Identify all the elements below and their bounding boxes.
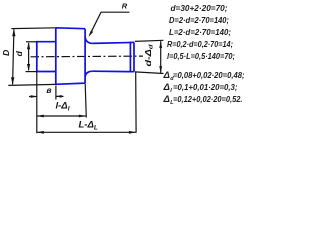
svg-text:L-ΔL: L-ΔL — [79, 120, 98, 132]
svg-text:Δ: Δ — [163, 82, 170, 93]
svg-text:Δ: Δ — [163, 94, 170, 105]
dimension d-dd (right end) extension lines — [135, 40, 164, 73]
shaft bottom edge — [93, 70, 134, 73]
dimension d arrows — [27, 42, 30, 49]
centerline (axis) — [31, 55, 144, 58]
left stub cylinder (diameter d) — [37, 28, 134, 85]
svg-text:=0,1+0,01·20=0,3;: =0,1+0,01·20=0,3; — [173, 83, 238, 92]
dimension D arrows — [12, 29, 15, 37]
d-dd arrows — [159, 41, 162, 48]
shaft end faces (double line) — [130, 42, 134, 71]
svg-text:l-Δl: l-Δl — [56, 101, 70, 113]
dimension l-dl right extension (flange right face down) — [85, 84, 86, 118]
svg-text:L=2·d=2·70=140;: L=2·d=2·70=140; — [169, 28, 231, 37]
lower fillet — [85, 71, 93, 77]
shared left extension line — [36, 72, 38, 133]
svg-text:d=30+2·20=70;: d=30+2·20=70; — [171, 4, 228, 13]
svg-text:Δ: Δ — [163, 70, 170, 81]
leader line for R — [90, 12, 130, 35]
svg-text:d: d — [14, 50, 24, 56]
svg-text:D: D — [1, 50, 11, 56]
svg-text:R: R — [122, 1, 128, 10]
dimension d extension lines — [26, 42, 37, 72]
l-dl dim line — [37, 115, 86, 117]
svg-text:в: в — [46, 85, 51, 95]
dimension D extension lines — [8, 28, 56, 86]
svg-text:d-Δd: d-Δd — [144, 44, 155, 67]
shaft top edge — [93, 42, 134, 43]
svg-text:=0,12+0,02·20=0,52.: =0,12+0,02·20=0,52. — [173, 95, 243, 104]
svg-text:R=0,2·d=0,2·70=14;: R=0,2·d=0,2·70=14; — [167, 40, 233, 49]
L-dL dim line — [37, 131, 136, 133]
flange (diameter D) — [56, 28, 85, 85]
leader arrowhead — [89, 31, 94, 37]
upper fillet R — [85, 37, 93, 44]
svg-text:l=0,5·L=0,5·140=70;: l=0,5·L=0,5·140=70; — [167, 52, 235, 61]
dimension L-dL right extension (shaft end down) — [135, 73, 137, 133]
svg-text:D=2·d=2·70=140;: D=2·d=2·70=140; — [169, 16, 229, 25]
dimension d dim line — [28, 43, 30, 70]
svg-text:l: l — [170, 88, 172, 94]
dimension D dim line — [13, 30, 14, 85]
extension from flange left face down — [55, 86, 57, 100]
dim line — [160, 41, 162, 73]
formulas text block — [163, 4, 245, 106]
svg-text:=0,08+0,02·20=0,48;: =0,08+0,02·20=0,48; — [173, 71, 245, 80]
dimension b (stub length), outside arrows — [29, 95, 64, 97]
